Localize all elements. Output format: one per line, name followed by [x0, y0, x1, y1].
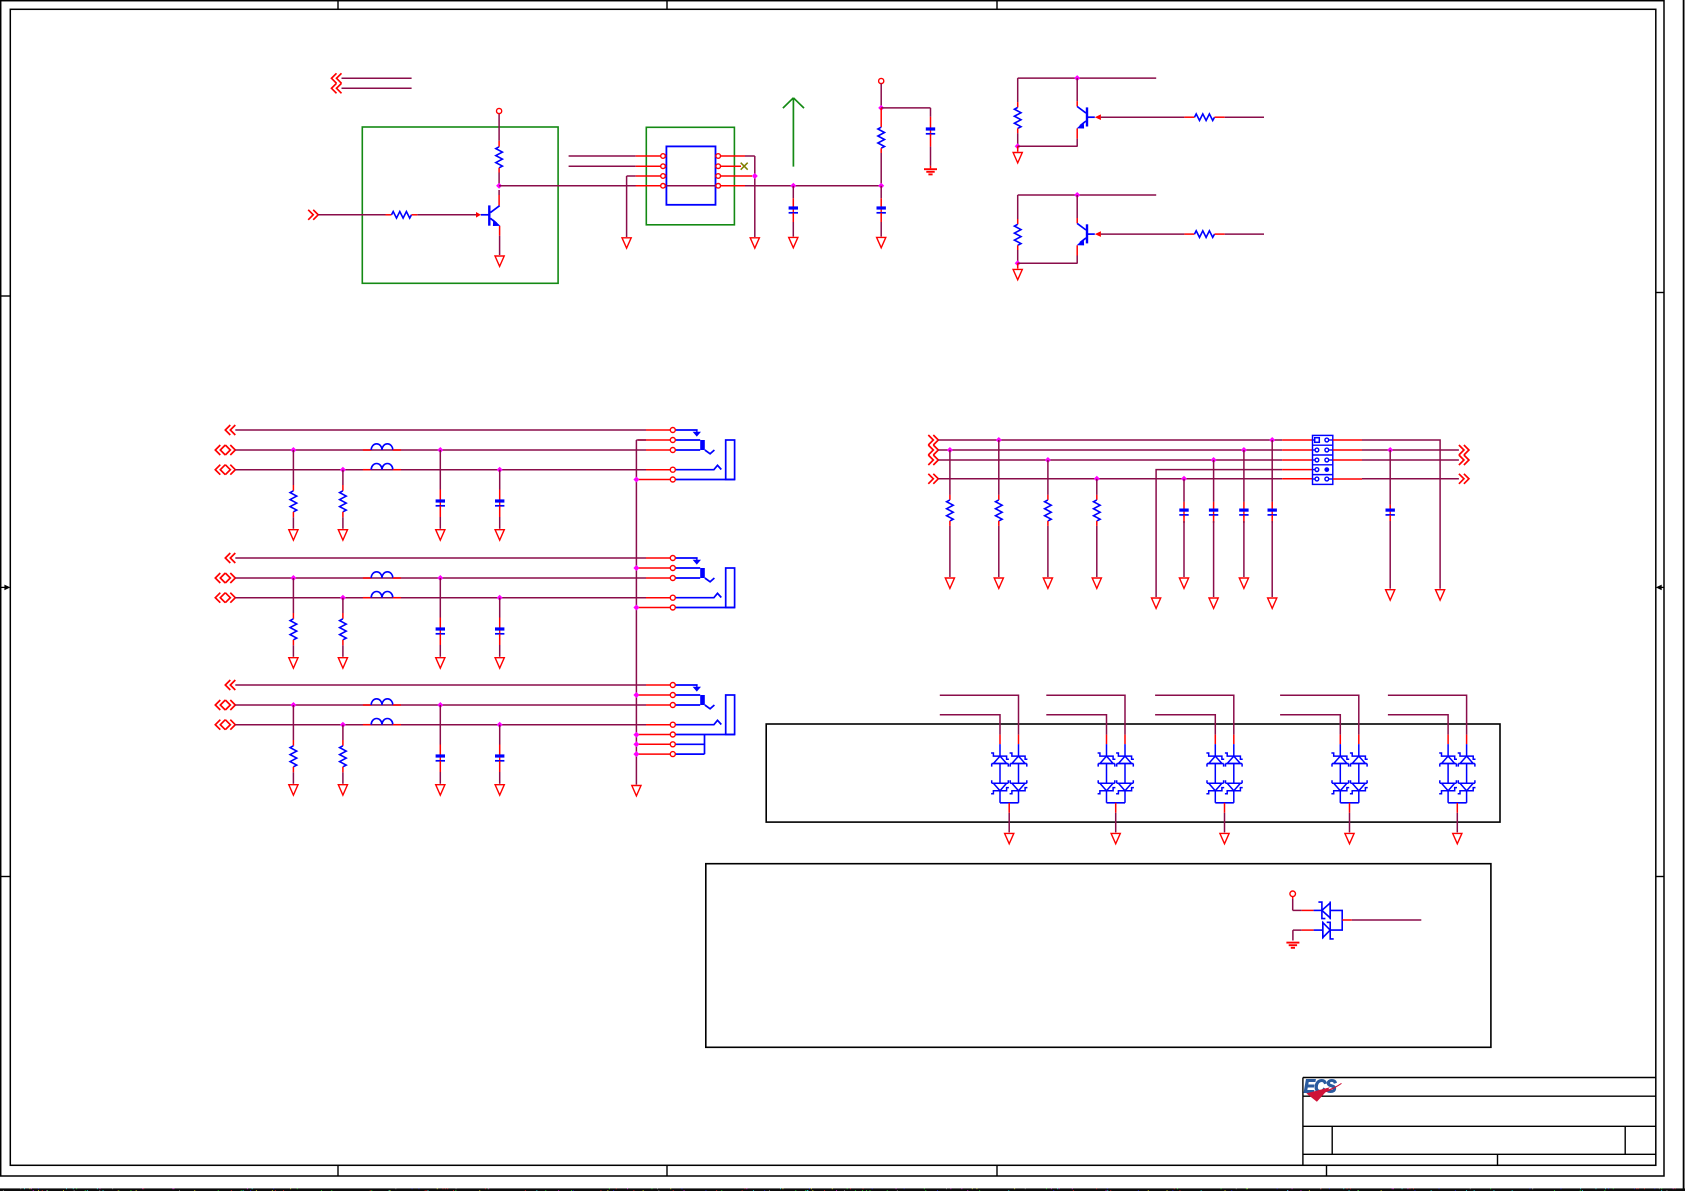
header CON1 body — [1313, 435, 1333, 484]
ground GND C10 — [1386, 590, 1395, 600]
connector J1 ring contact — [675, 465, 721, 469]
wire D4 stub lower — [1280, 715, 1340, 735]
resistor J2 RC — [342, 598, 344, 613]
pin U1 pin8 — [716, 155, 746, 157]
ground GND D5 — [1453, 833, 1462, 843]
node J1 C-B junction — [437, 447, 443, 453]
ground GND J2 CC — [495, 658, 504, 668]
group box ESD array — [766, 724, 1500, 822]
wire D5 stub upper — [1388, 695, 1467, 734]
wire base — [417, 214, 476, 216]
node C3 junction — [790, 183, 796, 189]
wire Q2 top rail — [1018, 77, 1156, 79]
wire Q3 base lead — [1087, 233, 1095, 235]
header CON1 left leads — [1282, 439, 1312, 441]
wire D2 common — [1107, 802, 1126, 804]
wire jack shield bus — [635, 440, 637, 785]
resistor J1 RB — [292, 450, 294, 485]
node Q3 top junction — [1074, 192, 1080, 198]
node U1 pin6 junction — [752, 173, 758, 179]
title block row3 dividers — [1332, 1126, 1625, 1154]
ground GND R10 — [1043, 578, 1052, 588]
pin U1 pin2 — [636, 165, 667, 167]
node C7 junction — [1211, 457, 1217, 463]
ground GND J3 CB — [436, 785, 445, 795]
wire Q3 base input — [1225, 233, 1264, 235]
wire D1 common — [1000, 802, 1019, 804]
pin U1 pin6 — [716, 175, 753, 177]
node J3 C-C junction — [497, 722, 503, 728]
capacitor C6 — [1183, 479, 1185, 502]
connector J3 body — [726, 695, 735, 735]
wire Q2 base lead — [1087, 116, 1095, 118]
inductor J3 LC — [363, 724, 371, 726]
power pin VCC2 — [879, 78, 884, 83]
wire Q2 base input — [1225, 116, 1264, 118]
border zone tick top 1 — [337, 1, 339, 10]
capacitor C4 — [930, 108, 932, 117]
node J2 C-C junction — [497, 595, 503, 601]
power pin D6 anode — [1290, 891, 1296, 897]
logo ECS — [1304, 1076, 1342, 1102]
wire U1 pin1 stub — [569, 155, 636, 157]
wire bus line2 right — [1362, 449, 1459, 451]
ground GND C8 — [1239, 578, 1248, 588]
port J3 line C chevron — [215, 720, 225, 730]
header CON1 right leads — [1333, 439, 1362, 441]
ground GND U1 pin8 — [750, 238, 759, 248]
group box U1 — [646, 127, 734, 225]
pin U1 pin3 — [636, 175, 667, 177]
ground GND C3 — [789, 237, 798, 247]
pin U1 pin4 — [636, 185, 667, 187]
resistor J2 RB — [292, 578, 294, 613]
node VCC2 junction — [878, 105, 884, 111]
ground earth C4 — [924, 168, 937, 170]
resistor J3 RB — [292, 705, 294, 740]
node R3 bottom junction — [878, 183, 884, 189]
pin U1 pin1 — [636, 155, 667, 157]
wire D5 stub lower — [1388, 715, 1448, 735]
diode D6 upper — [1314, 909, 1322, 911]
connector J3 tip arrow — [675, 685, 697, 687]
connector J2 ring contact — [675, 593, 721, 597]
wire J2 line B — [235, 577, 646, 579]
window edge line right — [1683, 0, 1685, 1191]
ground GND R11 — [1092, 578, 1101, 588]
ground GND J1 RB — [289, 530, 298, 540]
capacitor J1 CB — [439, 450, 441, 490]
wire bus line4 right — [1362, 478, 1459, 480]
inductor J1 LB — [363, 449, 371, 451]
connector J2 pins — [670, 556, 675, 561]
wire J1 line A — [235, 429, 646, 431]
port J1 line A chevron — [225, 425, 235, 435]
wire bus line3 right — [1362, 459, 1459, 461]
wire P1 line A — [342, 77, 412, 79]
resistor J1 RC — [342, 470, 344, 485]
connector J3 ring contact — [675, 720, 721, 724]
wire collector net — [499, 185, 881, 187]
wire bus line1 right leg — [1362, 440, 1440, 589]
node Q3 emitter junction — [1015, 260, 1021, 266]
node shield J2 row5 — [633, 605, 639, 611]
ground GND J3 RC — [338, 785, 347, 795]
transistor Q1 — [481, 214, 490, 216]
node J3 R-B junction — [290, 702, 296, 708]
ground GND Q3 — [1017, 263, 1019, 268]
wire shield to J1 row2 — [636, 439, 646, 441]
wire emitter — [499, 226, 501, 236]
node C6 junction — [1181, 476, 1187, 482]
wire D4 stub upper — [1280, 695, 1359, 734]
ground GND J3 CC — [495, 785, 504, 795]
ground GND J1 CB — [436, 530, 445, 540]
wire D7 ground leg — [1293, 930, 1302, 940]
wire J3 line C — [235, 724, 646, 726]
wire D3 stub upper — [1155, 695, 1234, 734]
diode D3A pair — [1214, 735, 1216, 744]
port J3 line A chevron — [225, 680, 235, 690]
title block frame — [1303, 1078, 1656, 1155]
border zone tick left 2 — [1, 876, 11, 878]
wire Q3 top rail — [1018, 194, 1156, 196]
wire bus line4 — [938, 478, 1282, 480]
capacitor C8 — [1243, 450, 1245, 502]
port bus line2 out chevron — [1459, 445, 1469, 455]
wire D1 stub upper — [940, 695, 1019, 734]
pin U1 pin5 — [716, 185, 746, 187]
capacitor J2 CB — [439, 578, 441, 618]
port J1 line C chevron — [215, 465, 225, 475]
border zone tick right 2 — [1656, 876, 1664, 878]
diode D1B pair — [1018, 735, 1020, 744]
node Q2 top junction — [1074, 75, 1080, 81]
ground GND C9 — [1268, 598, 1277, 608]
connector J2 sleeve line — [675, 607, 735, 609]
wire Q2 bottom rail — [1018, 145, 1078, 147]
border center arrow right — [1660, 586, 1665, 588]
wire U1 pin2 stub — [569, 165, 636, 167]
node Q2 emitter junction — [1015, 143, 1021, 149]
ground GND D1 — [1005, 833, 1014, 843]
node shield J3 row2 — [633, 692, 639, 698]
connector J3 extra contacts — [675, 735, 704, 755]
border zone tick top 2 — [666, 1, 668, 10]
border zone tick bottom 1 — [337, 1165, 339, 1176]
border zone tick bottom 4 — [1326, 1165, 1328, 1176]
ground GND J2 RB — [289, 658, 298, 668]
capacitor C9 — [1271, 440, 1273, 502]
border zone tick bottom 3 — [996, 1165, 998, 1176]
port bus line3 out chevron — [1459, 455, 1469, 465]
connector J1 pin leads — [646, 429, 670, 431]
ic U1 body — [666, 146, 715, 204]
ground GND R8 — [945, 578, 954, 588]
diode D5A pair — [1447, 735, 1449, 744]
resistor R5 — [1184, 116, 1194, 118]
ground GND D2 — [1111, 833, 1120, 843]
transistor Q3 — [1076, 195, 1078, 218]
wire D6 D7 common — [1330, 910, 1342, 930]
port P1 chevron A — [332, 73, 342, 83]
wire U1 pin8 ground leg — [745, 155, 755, 157]
resistor R3 — [880, 108, 882, 127]
resistor J3 RC — [342, 725, 344, 740]
diode D4A pair — [1339, 735, 1341, 744]
port J2 line A chevron — [225, 553, 235, 563]
wire U1 pin3 ground leg — [627, 175, 636, 177]
port bus line4 out chevron — [1459, 474, 1469, 484]
node C9 junction — [1269, 437, 1275, 443]
node J1 R-C junction — [340, 467, 346, 473]
capacitor J1 CC — [499, 470, 501, 490]
wire bus line2 — [938, 449, 1282, 451]
resistor R9 — [998, 440, 1000, 495]
wire D2 stub lower — [1046, 715, 1106, 735]
ground GND C7 — [1209, 598, 1218, 608]
no-connect X U1 pin7 — [741, 163, 748, 170]
node shield J3 row5 — [633, 732, 639, 738]
window edge strip bottom — [0, 1188, 1685, 1191]
wire J1 line C — [235, 469, 646, 471]
diode D2B pair — [1124, 735, 1126, 744]
node R11 junction — [1094, 476, 1100, 482]
node J3 C-B junction — [437, 702, 443, 708]
ground GND Q1 — [495, 256, 504, 266]
header CON1 pin1 square — [1313, 439, 1315, 441]
node shield J2 row2 — [633, 565, 639, 571]
ground GND J1 RC — [338, 530, 347, 540]
wire D2 stub upper — [1046, 695, 1125, 734]
ground GND C5 — [877, 237, 886, 247]
resistor R4 — [1017, 78, 1019, 102]
connector J3 sleeve line — [675, 734, 735, 736]
port J1 line B chevron — [215, 445, 225, 455]
ground GND shield — [632, 786, 641, 796]
port P1 chevron B — [332, 83, 342, 93]
port J2 line C chevron — [215, 593, 225, 603]
wire J3 line A — [235, 684, 646, 686]
wire J3 line B — [235, 704, 646, 706]
wire bus line1 — [938, 439, 1282, 441]
border center arrow left — [1, 586, 6, 588]
group box lower — [706, 864, 1491, 1048]
node J2 R-B junction — [290, 575, 296, 581]
inductor J2 LB — [363, 577, 371, 579]
ground GND D3 — [1220, 833, 1229, 843]
resistor R11 — [1096, 479, 1098, 495]
header CON1 left pins — [1313, 449, 1316, 451]
node R8 junction — [947, 447, 953, 453]
resistor R10 — [1047, 460, 1049, 495]
arrow Q2 base signal — [1095, 114, 1101, 120]
port J3 line B chevron — [215, 700, 225, 710]
connector J1 body — [726, 440, 735, 480]
capacitor J2 CC — [499, 598, 501, 618]
transistor Q2 — [1076, 78, 1078, 101]
header CON1 pin8 plug — [1324, 467, 1329, 472]
capacitor J3 CC — [499, 725, 501, 745]
diode D4B pair — [1358, 735, 1360, 744]
connector J2 tip arrow — [675, 558, 697, 560]
node R10 junction — [1045, 457, 1051, 463]
wire J1 line B — [235, 449, 646, 451]
wire VCC2 to C4 — [881, 107, 930, 109]
resistor R2 — [386, 214, 392, 216]
capacitor C7 — [1213, 460, 1215, 502]
wire D5 common — [1448, 802, 1467, 804]
wire Q2 base net — [1101, 116, 1185, 118]
inductor J1 LC — [363, 469, 371, 471]
capacitor J3 CB — [439, 705, 441, 745]
connector J2 body — [726, 568, 735, 608]
port bus line1 chevron — [928, 435, 938, 445]
wire header pin4 leg — [1156, 470, 1282, 597]
wire Q3 bottom rail — [1018, 262, 1078, 264]
node C8 junction — [1241, 447, 1247, 453]
wire bus line3 — [938, 459, 1282, 461]
ground GND J3 RB — [289, 785, 298, 795]
ground GND D4 — [1345, 833, 1354, 843]
wire P1 line B — [342, 87, 412, 89]
connector J3 switch block — [675, 694, 700, 696]
node C10 junction — [1387, 447, 1393, 453]
port bus line3 chevron — [928, 455, 938, 465]
wire J2 line C — [235, 597, 646, 599]
ground GND J2 RC — [338, 658, 347, 668]
border zone tick bottom 2 — [666, 1165, 668, 1176]
capacitor C3 — [792, 186, 794, 199]
resistor R8 — [949, 450, 951, 495]
connector J3 pins — [670, 683, 675, 688]
border zone tick left 1 — [1, 295, 11, 297]
power pin VCC1 — [498, 114, 500, 141]
ground GND U1 pin3 — [622, 238, 631, 248]
title block row4 divider — [1497, 1154, 1499, 1165]
resistor R6 — [1017, 195, 1019, 219]
diode D5B pair — [1466, 735, 1468, 744]
wire D3 stub lower — [1155, 715, 1215, 735]
connector J3 pin leads — [646, 684, 670, 686]
connector J2 pin leads — [646, 557, 670, 559]
wire base input — [318, 214, 385, 216]
ground GND R9 — [994, 578, 1003, 588]
resistor R7 — [1184, 233, 1194, 235]
border zone tick right 1 — [1656, 292, 1664, 294]
connector J1 pins — [670, 428, 675, 433]
node J1 C-C junction — [497, 467, 503, 473]
node R9 junction — [996, 437, 1002, 443]
arrow Q3 base signal — [1095, 231, 1101, 237]
node shield J1 row5 — [633, 477, 639, 483]
node collector junction — [496, 183, 502, 189]
port J2 line B chevron — [215, 573, 225, 583]
ground GND line1 — [1436, 590, 1445, 600]
node J1 R-B junction — [290, 447, 296, 453]
ground GND header pin4 — [1152, 598, 1161, 608]
resistor R1 — [498, 141, 500, 147]
node J3 R-C junction — [340, 722, 346, 728]
connector J1 switch block — [675, 439, 700, 441]
ground GND C6 — [1179, 578, 1188, 588]
group box Q1 circuit — [362, 127, 558, 283]
port bus line2 chevron — [928, 445, 938, 455]
node J2 C-B junction — [437, 575, 443, 581]
capacitor C5 — [880, 186, 882, 199]
header CON1 right pins — [1329, 439, 1333, 441]
ground earth D7 — [1286, 942, 1299, 944]
node J2 R-C junction — [340, 595, 346, 601]
connector J1 sleeve line — [675, 479, 735, 481]
node shield J3 row6 — [633, 741, 639, 747]
node shield J3 row7 — [633, 751, 639, 757]
arrow base signal — [476, 212, 481, 218]
diode D1A pair — [999, 735, 1001, 744]
wire diode output — [1342, 919, 1352, 921]
diode D3B pair — [1233, 735, 1235, 744]
connector J1 tip arrow — [675, 430, 697, 432]
pin U1 pin7 — [716, 165, 742, 167]
wire D4 common — [1340, 802, 1359, 804]
wire D1 stub lower — [940, 715, 1000, 735]
diode D7 lower — [1314, 929, 1323, 931]
wire D3 common — [1215, 802, 1234, 804]
port bus line4 chevron — [928, 474, 938, 484]
inductor J3 LB — [363, 704, 371, 706]
wire J2 line A — [235, 557, 646, 559]
wire Q3 base net — [1101, 233, 1185, 235]
power arrow VDD — [783, 98, 804, 167]
border zone tick top 3 — [996, 1, 998, 10]
ground GND J2 CB — [436, 658, 445, 668]
connector J2 switch block — [675, 567, 700, 569]
wire collector red segment — [498, 190, 500, 195]
port base input chevron — [308, 210, 318, 220]
diode D2A pair — [1106, 735, 1108, 744]
capacitor C10 — [1389, 450, 1391, 505]
ground GND Q2 — [1017, 146, 1019, 151]
ground GND J1 CC — [495, 530, 504, 540]
inductor J2 LC — [363, 597, 371, 599]
